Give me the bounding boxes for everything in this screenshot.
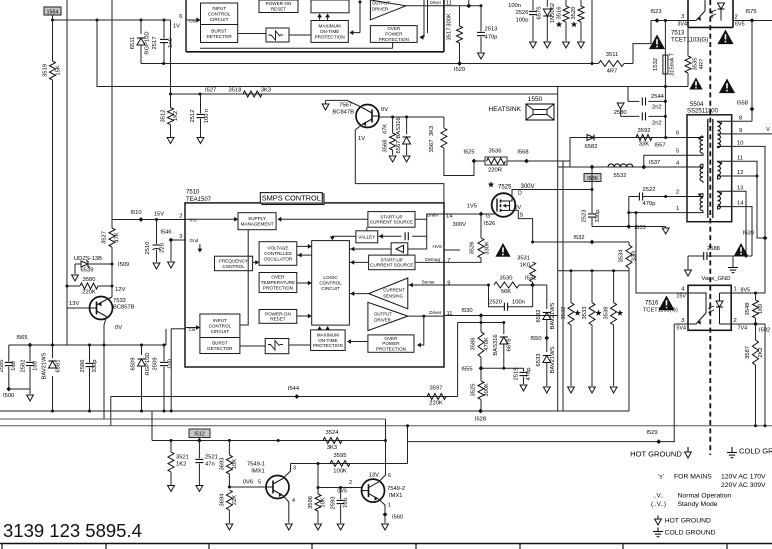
svg-text:..V..: ..V.. [653,493,664,500]
box start-up current source 2 [369,255,415,270]
svg-text:3519: 3519 [43,64,49,77]
wire x765 right rail [764,238,766,293]
svg-text:OSCILLATOR: OSCILLATOR [264,257,293,262]
svg-text:PROTECTION: PROTECTION [376,347,406,352]
wire bus y63.5 (I520 net) [141,63,599,65]
svg-text:POWER: POWER [385,32,403,37]
svg-text:CIRCUIT: CIRCUIT [321,286,340,291]
wire x628.8 riser [628,197,630,227]
svg-text:I520: I520 [454,67,465,73]
svg-text:TEA1507: TEA1507 [186,197,212,203]
node I509 [111,263,114,266]
junction y20 x164 [163,19,166,22]
mosfet 7525 [492,193,516,217]
wire y167 (pin 4 row) [558,166,687,168]
svg-text:220R: 220R [488,168,502,174]
wire pin11 net [444,5,481,7]
ground I500 [27,395,34,401]
svg-text:6567: 6567 [396,141,402,154]
svg-text:SS2511300: SS2511300 [687,109,719,115]
svg-text:3580: 3580 [83,277,96,283]
svg-text:7: 7 [447,258,450,264]
svg-text:BURST: BURST [211,28,227,33]
svg-text:11: 11 [737,156,743,162]
wire 7567 emitter riser [355,125,444,204]
legend cold ground [657,528,659,532]
wire y322.5 [458,322,504,324]
svg-text:Driver: Driver [430,0,442,5]
svg-text:INPUT: INPUT [213,318,227,323]
wire x665.4 riser [664,87,666,138]
ground 3538 [610,387,617,393]
wire bus y419 [0,418,386,420]
capacitor 2544 2n2 [628,100,639,102]
svg-text:2n2: 2n2 [652,105,662,111]
diode 6678 BAS316 [503,323,505,335]
svg-text:I558: I558 [737,101,748,107]
svg-text:COLD GR: COLD GR [739,447,772,456]
svg-text:I555: I555 [461,367,472,373]
node I512 box [189,429,210,438]
arrows max to logic [319,328,321,330]
svg-text:I550: I550 [530,336,541,342]
wire I512 net y440.5 [152,440,386,442]
svg-text:1n0: 1n0 [168,359,174,369]
ground 7567 collector [325,100,327,104]
wire I530 riser [480,316,482,332]
wire pin2 7513 [733,20,772,22]
svg-text:2: 2 [735,15,738,21]
ground 3512 [167,138,174,144]
svg-text:1V: 1V [173,24,180,30]
svg-text:I546: I546 [160,230,171,236]
pin 7 Demag [444,261,481,263]
svg-text:I510: I510 [130,210,141,216]
resistor 3538 star [613,271,615,303]
primary winding 6-5 [700,136,703,140]
wire pin3 7516 [674,323,688,325]
svg-text:4R7: 4R7 [699,59,705,70]
svg-text:2: 2 [179,214,182,220]
svg-text:33R: 33R [632,251,638,262]
svg-text:1550: 1550 [528,96,543,103]
svg-text:2: 2 [676,190,679,196]
ground symbol hot [687,447,689,452]
svg-text:2588: 2588 [707,246,720,252]
svg-text:1K2: 1K2 [173,111,179,121]
svg-text:ON-TIME: ON-TIME [318,338,337,343]
svg-text:22K: 22K [232,495,238,505]
svg-text:300K: 300K [484,383,490,397]
svg-text:5V4: 5V4 [676,326,686,332]
svg-text:7516: 7516 [645,301,659,307]
svg-text:S: S [520,213,524,219]
box input control circuit [200,314,240,338]
svg-text:5: 5 [258,480,261,486]
svg-text:12: 12 [737,170,743,176]
svg-text:I529: I529 [646,430,657,436]
resistor 3519 15K [50,61,56,80]
sawtooth oscillator box [265,339,289,354]
svg-text:2580: 2580 [614,110,627,116]
resistor 3694 22K [226,490,232,510]
svg-text:2593: 2593 [331,497,337,510]
arrow overpower to max [348,341,368,343]
sawtooth oscillator box top IC [266,28,289,42]
wire y270.8 [558,270,629,272]
svg-text:6V5: 6V5 [735,22,745,28]
optocoupler 7516 box [688,285,731,330]
svg-text:7525: 7525 [498,185,512,191]
svg-text:Drain: Drain [427,213,438,218]
svg-text:Sense: Sense [422,280,435,285]
wire pin 9 out [732,133,772,135]
svg-text:2519: 2519 [514,368,520,381]
frame bottom border [0,543,772,545]
svg-text:10u: 10u [343,498,349,508]
svg-text:CONTROL: CONTROL [222,264,245,269]
box over temperature protection [259,273,297,293]
triangle output driver top IC [370,0,406,20]
wire I523 riser staircase [633,21,651,64]
svg-text:7510: 7510 [186,190,200,196]
svg-text:I527: I527 [205,88,216,94]
svg-text:(..V..): (..V..) [651,501,666,508]
arrow freq to vco [253,261,260,263]
diode 6575 1N5062 [546,0,548,7]
wire base net 7549-2 y487.5 [317,464,319,488]
svg-text:7532: 7532 [113,298,126,304]
svg-text:CONTROL: CONTROL [319,280,342,285]
svg-text:2509: 2509 [153,358,159,371]
svg-text:3597: 3597 [430,386,443,392]
svg-text:7V4: 7V4 [738,326,748,332]
svg-text:MAXIMUM: MAXIMUM [319,24,341,29]
svg-text:OUTPUT: OUTPUT [372,1,390,6]
svg-text:3525: 3525 [471,384,477,397]
svg-text:3595: 3595 [334,453,347,459]
ground y226.5 [665,227,667,229]
svg-text:3588: 3588 [471,338,477,351]
resistor 3534 33R [626,245,632,268]
pin HVS stub [444,249,460,251]
svg-text:2522: 2522 [643,187,656,193]
svg-text:15V: 15V [154,212,164,218]
node I525 [472,159,477,164]
wire sawtooth to max box top IC [289,34,311,36]
warning triangle below 7513 [717,30,733,45]
svg-text:FREQUENCY: FREQUENCY [219,258,248,263]
node I537 [641,165,646,170]
box input control circuit top IC [201,3,238,25]
svg-text:3512: 3512 [161,110,167,123]
svg-text:6509: 6509 [131,358,137,371]
warning triangle mosfet [495,243,510,257]
wire bus y86.5 [97,86,688,88]
diode 6509 RGP10D [141,345,143,355]
node box 1564 [44,7,61,15]
svg-text:1K2: 1K2 [176,462,186,468]
svg-text:3: 3 [293,466,296,472]
wire 3537 to I568 [507,160,570,162]
resistor 3511 4R7 [599,61,625,67]
svg-text:3694: 3694 [220,493,226,507]
svg-text:I575: I575 [745,9,756,15]
capacitor 2586 330p [89,345,91,362]
capacitor 2512 100n [200,94,202,113]
pin 9 Sense [444,284,489,286]
junction y20 x141 [140,19,143,22]
svg-text:1564: 1564 [47,9,59,15]
svg-text:CONTROL: CONTROL [209,323,232,328]
node I558 [750,107,755,112]
star 3516 [556,21,562,27]
svg-text:6539: 6539 [81,268,94,274]
wire I558 riser [751,21,753,122]
svg-text:330p: 330p [92,360,98,373]
svg-text:2526: 2526 [516,10,529,16]
capacitor 2588 [688,255,704,257]
svg-text:PROTECTION: PROTECTION [379,37,409,42]
wire vertical x152 riser [151,411,153,441]
capacitor 2519 470p [523,368,525,371]
arrow overtemp to logic [297,282,312,284]
svg-text:BAV21WS: BAV21WS [550,302,556,329]
svg-text:1K0: 1K0 [758,304,764,314]
capacitor 2580 2n2 [617,103,624,109]
svg-text:I531: I531 [525,276,536,282]
node I531 [519,284,533,286]
secondary winding 11-12 [718,162,721,166]
node I565 [28,343,33,348]
svg-text:5504: 5504 [690,102,704,108]
node I555 wire [481,367,524,369]
node I568 [524,159,529,164]
svg-text:6533: 6533 [536,354,542,367]
ground 2512 [197,138,204,144]
svg-text:100K: 100K [333,469,347,475]
node I500 [6,387,11,392]
svg-text:V: V [766,127,770,133]
wire x563 [562,161,564,411]
wire vertical x170.5 net1564 drop [170,20,172,94]
node I536 box [590,165,595,170]
svg-text:13V: 13V [69,301,79,307]
svg-text:OUTPUT: OUTPUT [374,311,392,316]
svg-text:1: 1 [734,287,737,293]
svg-text:12V: 12V [115,287,125,293]
svg-text:3536: 3536 [489,149,502,155]
node I527 [199,93,202,96]
resistor 3595 100K inline [330,461,350,467]
wire 7549-1 collector [283,464,291,479]
diode 6532 BAV21WS [546,285,548,309]
box start-up current source 1 [368,212,415,228]
node I557 [664,136,667,139]
svg-text:2n2: 2n2 [652,121,662,127]
wire 7567 collector [326,100,362,107]
node I533 [626,224,631,229]
svg-text:33K: 33K [639,142,649,148]
wire 3567 bottom to I525 riser [444,148,474,176]
opto 7516 transistor [688,313,706,324]
transistor 7567 BC847B NPN [356,105,379,128]
svg-text:3521: 3521 [176,455,189,461]
svg-text:Vcc: Vcc [190,218,198,223]
svg-text:ON-TIME: ON-TIME [320,29,339,34]
wire 7549-1 emitter [283,496,289,524]
svg-text:TCET1103(G): TCET1103(G) [643,308,678,314]
arrow start-up to supply [279,218,368,220]
svg-text:5532: 5532 [614,173,627,179]
svg-text:I530: I530 [461,308,472,314]
svg-text:0V: 0V [381,107,388,113]
primary winding 4 [700,164,703,168]
warning triangle 7516 [658,296,674,311]
node I575 [750,18,755,23]
box valley [356,231,378,243]
svg-text:POWER-ON: POWER-ON [266,1,292,6]
wire 7525 drain [510,190,592,202]
wire pins 11-12 [732,161,765,238]
box voltage contrlled oscillator [259,242,297,266]
wire 12V node [111,264,113,286]
svg-text:7549-1: 7549-1 [247,462,265,468]
wire I532 net y242 [533,241,629,243]
svg-text:BURST: BURST [212,340,228,345]
svg-text:100p: 100p [516,18,529,24]
svg-text:BAS316: BAS316 [493,334,499,355]
svg-text:330p: 330p [595,210,601,223]
capacitor 2513 470p [480,6,482,32]
ground 2521 [196,486,203,492]
svg-text:300K: 300K [447,13,453,27]
svg-text:9: 9 [447,281,450,287]
svg-text:3530: 3530 [500,276,513,282]
ground 2593 [337,524,344,530]
arrow valley to logic top [332,236,356,238]
svg-text:6: 6 [676,131,679,137]
svg-text:FOR MAINS: FOR MAINS [674,474,712,481]
svg-text:TCET1103(G): TCET1103(G) [671,38,708,44]
transistor 7549-1 IMX1 [266,476,289,499]
svg-text:6678: 6678 [507,339,513,352]
ground 3596 [315,524,322,530]
svg-text:HVS: HVS [433,244,442,249]
box over power protection top IC [370,26,417,43]
resistor 3530 56K [494,282,519,288]
valley drain sense cap [378,235,402,237]
svg-text:2: 2 [349,480,352,486]
svg-text:220K: 220K [82,290,96,296]
wire driver pin 11 top IC [406,5,444,7]
svg-text:I565: I565 [16,335,27,341]
wire I531 to 6532 [533,284,547,286]
svg-text:10: 10 [737,141,743,147]
node I546 / pin 3 Gnd wire [171,239,186,241]
svg-text:HEATSINK: HEATSINK [489,106,522,113]
svg-text:2521: 2521 [205,455,218,461]
wire pin1 7516 [731,292,765,294]
svg-text:7513: 7513 [671,31,685,37]
node I530 [479,313,484,318]
svg-text:3548: 3548 [745,303,751,316]
arrow into max right top IC [359,2,361,33]
svg-text:3526: 3526 [470,242,476,255]
wire vertical x52.5 [52,20,54,61]
arrow riser to over power [418,316,424,345]
box maximum on-time protection [311,330,346,351]
node I560 [383,512,388,517]
resistor 3524 3K3 inline [323,438,342,444]
resistor 3525 300K [480,368,482,381]
svg-text:MANAGEMENT: MANAGEMENT [241,222,274,227]
ground 6533 [543,387,550,393]
svg-text:6532: 6532 [536,310,542,323]
svg-text:'s': 's' [658,474,664,481]
svg-text:CURRENT SOURCE: CURRENT SOURCE [370,220,413,225]
fuse 1532 315mA T [664,21,666,56]
resistor 3518 3K3 [243,91,262,97]
svg-text:Gnd: Gnd [190,238,199,243]
ground 3533 [589,387,596,393]
box burst detector top IC [201,25,238,43]
svg-text:2: 2 [734,318,737,324]
wire 13V riser [385,419,387,441]
svg-text:3516: 3516 [557,7,563,20]
svg-text:15K: 15K [56,65,62,75]
wire start-up1 to drain [415,214,444,219]
svg-text:DETECTOR: DETECTOR [207,34,233,39]
svg-text:3K3: 3K3 [327,445,337,451]
opto 7513 transistor [688,11,705,21]
arrows vco logic [297,245,312,247]
svg-text:4: 4 [292,498,295,504]
svg-text:I557: I557 [654,143,665,149]
capacitor 2517 1n0 [163,20,165,38]
svg-text:TEMPERATURE: TEMPERATURE [261,280,295,285]
svg-text:3534: 3534 [619,249,625,263]
node I528 [478,409,483,414]
box frequency control [215,256,253,271]
ground 3694 [226,524,233,530]
svg-text:HOT GROUND: HOT GROUND [630,450,682,459]
svg-text:6: 6 [388,473,391,479]
svg-text:OVER: OVER [384,336,398,341]
ground 2588 left [687,256,689,270]
svg-text:HOT GROUND: HOT GROUND [665,518,711,525]
svg-text:13V: 13V [369,473,379,479]
svg-text:4R7: 4R7 [607,69,618,75]
svg-text:1K0: 1K0 [520,263,530,269]
svg-text:3: 3 [681,14,684,20]
svg-text:DRIVER: DRIVER [374,317,391,322]
ground 3520 [578,42,585,48]
wire pin 13 [732,191,746,256]
svg-text:SMPS CONTROL: SMPS CONTROL [262,194,321,203]
wire I510 net y219.5 [112,219,186,221]
svg-text:2520: 2520 [489,300,502,306]
svg-text:3K3: 3K3 [261,88,271,94]
wire pin 5 [644,155,687,167]
resistor 3526 330K [480,214,482,238]
resistor 3568 47K [391,116,394,119]
svg-text:0V6: 0V6 [243,480,253,486]
wire base 7549-1 y487 [229,486,266,488]
ground 6575 [544,42,551,48]
opto 7513 led [718,3,725,9]
warning triangle right [719,79,735,94]
